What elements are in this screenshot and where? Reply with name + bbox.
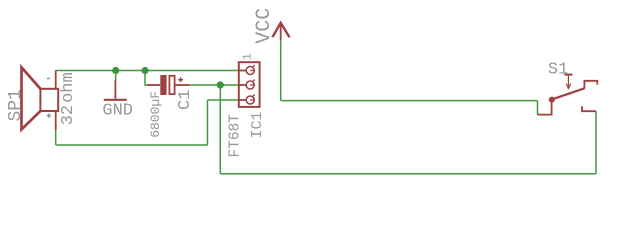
capacitor C1 filled plate <box>160 75 166 95</box>
wire bottom left horizontal to speaker+ <box>56 144 208 146</box>
wire VCC to switch horizontal <box>281 100 538 102</box>
speaker minus label <box>47 78 50 80</box>
svg-text:IC1: IC1 <box>249 111 266 138</box>
connector IC1 body <box>239 62 260 107</box>
VCC supply arrow <box>272 23 289 41</box>
speaker plus label <box>47 113 52 118</box>
svg-text:S1: S1 <box>548 61 568 80</box>
junction dot below IC1 pin2 <box>217 81 224 88</box>
switch S1 bottom throw contact <box>582 106 596 111</box>
junction dot at GND tap <box>112 67 119 74</box>
svg-text:SP1: SP1 <box>6 89 26 121</box>
IC1 pin 1 <box>239 65 255 75</box>
wire down to switch pole pin <box>537 101 539 115</box>
IC1 pin 2 <box>239 80 255 90</box>
IC1 pin 3 <box>239 95 255 105</box>
svg-text:C1: C1 <box>176 90 195 110</box>
junction dot at C1 tap <box>141 67 148 74</box>
svg-text:GND: GND <box>102 102 133 121</box>
wire IC1 pin3 left <box>208 99 239 101</box>
wire bottom long horizontal <box>220 173 596 175</box>
switch S1 lever <box>552 88 585 99</box>
speaker pin minus (top) <box>55 71 57 89</box>
capacitor plus mark <box>178 77 183 82</box>
ground symbol GND <box>104 81 127 100</box>
speaker SP1 body box <box>40 89 58 111</box>
switch S1 pole contact dot <box>549 97 555 103</box>
svg-text:6800µF: 6800µF <box>148 91 163 138</box>
svg-text:FT68T: FT68T <box>228 114 244 158</box>
wire C1 right lead to IC1 pin2 <box>190 84 239 86</box>
svg-text:VCC: VCC <box>253 8 276 44</box>
wire up to speaker + pin <box>55 130 57 145</box>
wire junction to C1 left lead <box>145 71 147 86</box>
wire right vertical up to switch throw <box>595 111 597 174</box>
wire net N$1 top horizontal speaker- to IC1 pin1 <box>56 70 239 72</box>
svg-text:32 ohm: 32 ohm <box>59 72 78 125</box>
wire GND drop from junction <box>115 71 117 81</box>
capacitor C1 hollow plate <box>169 76 174 94</box>
speaker pin plus (bottom) <box>55 111 57 130</box>
wire down from pin3 <box>207 100 209 145</box>
switch S1 top throw contact <box>584 81 597 89</box>
wire VCC vertical <box>280 41 282 101</box>
switch S1 actuator <box>564 75 572 89</box>
capacitor C1 right lead <box>175 84 189 86</box>
capacitor C1 left lead <box>147 84 160 86</box>
wire junction down left vertical <box>219 85 221 174</box>
speaker SP1 cone <box>22 67 41 129</box>
svg-text:1: 1 <box>240 53 254 60</box>
switch S1 pole pin bracket <box>538 100 552 115</box>
